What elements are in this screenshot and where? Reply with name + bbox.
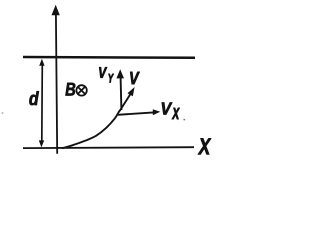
y-axis — [52, 5, 60, 154]
B-field into page symbol — [76, 85, 86, 95]
x-axis — [23, 146, 194, 149]
label X — [198, 138, 211, 154]
vector Vx — [118, 109, 160, 115]
label Vx — [162, 103, 180, 120]
label B — [66, 83, 76, 96]
label V — [130, 72, 140, 84]
dimension arrow d — [39, 59, 45, 148]
stray scan dot — [2, 112, 4, 114]
vector Vy — [116, 69, 124, 110]
trajectory curve continuing into vector V — [62, 87, 135, 148]
label Vy — [99, 67, 114, 82]
label d — [29, 91, 39, 105]
stray dot after Vx — [183, 119, 185, 121]
top plate — [23, 56, 195, 59]
